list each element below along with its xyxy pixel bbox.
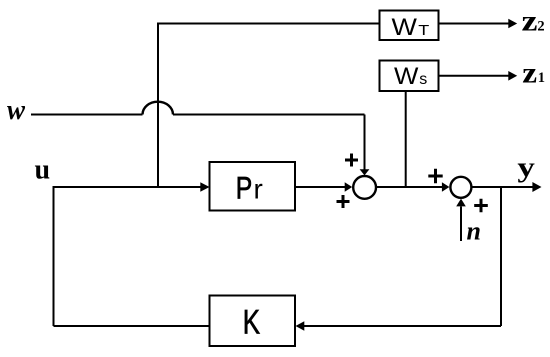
arrowhead into S2 bottom [456,199,466,207]
wire w input horizontal [31,114,143,116]
arrowhead into K [296,321,305,331]
svg-text:n: n [467,217,481,246]
wire K output to left feedback [54,325,210,327]
block Pr [210,162,296,211]
wire w drop into summing junction S1 [364,115,366,171]
plus sign S1 bottom [337,195,350,208]
wire u tap vertical to top [157,24,159,188]
block Ws [380,61,439,92]
wire feedback vertical right [500,187,502,326]
arrowhead into Pr [200,182,209,192]
svg-text:w: w [7,94,26,126]
wire feedback horizontal into K [304,325,501,327]
svg-text:s: s [419,71,427,88]
svg-text:r: r [254,174,263,205]
wire S2 output y [471,186,533,188]
svg-text:W: W [394,63,419,90]
summing junction S2 [450,177,471,198]
block WT [380,11,439,41]
svg-text:K: K [243,304,260,342]
arrowhead z1 [508,71,517,81]
svg-text:1: 1 [538,70,545,86]
wire n input vertical [460,207,462,242]
svg-text:P: P [236,170,253,206]
arrowhead into S1 top [360,169,370,175]
wire Ws tap vertical [405,91,407,187]
svg-text:u: u [35,155,51,186]
wire Ws output [439,75,510,77]
wire u feedback vertical left [53,186,55,326]
svg-text:z: z [522,5,538,38]
plus sign S1 top [345,154,358,167]
wire u horizontal into Pr [54,186,202,188]
svg-text:W: W [392,14,418,41]
svg-text:y: y [517,153,535,184]
svg-text:z: z [522,57,537,90]
wire hop over vertical line (crossing, no connection) [143,102,174,115]
block K [210,296,296,347]
plus sign S2 top [428,169,442,183]
arrowhead into S2 left [442,182,450,192]
summing junction S1 [353,176,376,199]
arrowhead z2 [508,19,517,29]
plus sign S2 bottom right [474,199,488,213]
svg-text:T: T [418,22,429,39]
svg-text:2: 2 [537,19,544,35]
wire WT output [439,23,510,25]
wire w horizontal right segment [173,114,365,116]
arrowhead y output [532,182,541,192]
wire top horizontal into WT [157,23,379,25]
wire Pr output into S1 [295,186,345,188]
wire S1 to S2 [376,186,442,188]
arrowhead into S1 left [345,182,353,192]
